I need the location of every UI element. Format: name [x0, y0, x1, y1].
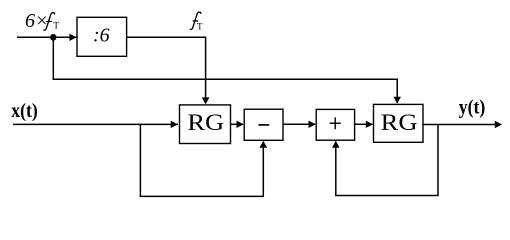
box RG2 — [374, 104, 424, 142]
node junction dot — [50, 34, 57, 41]
svg-text:T: T — [197, 21, 203, 31]
arrowhead into minus bottom — [260, 141, 268, 148]
svg-text:RG: RG — [187, 110, 224, 135]
arrowhead into RG2 left — [366, 121, 373, 128]
box minus — [244, 109, 283, 140]
label ft — [190, 12, 201, 30]
wire input 6xft — [17, 36, 77, 38]
arrowhead into RG1 left — [171, 121, 178, 128]
arrowhead into plus left — [309, 121, 316, 128]
minus sign — [258, 124, 269, 126]
arrowhead into minus left — [237, 121, 244, 128]
arrowhead into divider — [69, 34, 76, 41]
svg-text:T: T — [53, 22, 59, 32]
wire RG2 to y(t) output — [423, 124, 501, 126]
svg-text:RG: RG — [381, 110, 418, 135]
arrowhead into RG1 top — [202, 97, 210, 104]
svg-text:x(t): x(t) — [11, 100, 38, 122]
box RG1 — [180, 105, 231, 144]
wire divider output to RG1 top — [127, 37, 206, 103]
wire plus to RG2 — [355, 123, 373, 125]
wire RG1 to minus — [231, 123, 244, 125]
wire minus to plus — [283, 123, 315, 125]
arrowhead output y(t) — [495, 121, 502, 128]
svg-text:y(t): y(t) — [459, 96, 486, 118]
wire feedback right loop — [336, 125, 438, 196]
plus sign — [330, 122, 341, 124]
svg-text:6×: 6× — [25, 10, 49, 32]
wire x(t) input — [13, 123, 178, 125]
box plus — [316, 109, 354, 140]
wire feedback left loop — [140, 124, 263, 196]
box divider :6 — [77, 17, 127, 56]
arrowhead into RG2 top — [393, 97, 401, 104]
wire junction to RG2 top — [53, 37, 397, 103]
arrowhead into plus bottom — [332, 141, 340, 148]
svg-text::6: :6 — [93, 25, 110, 47]
